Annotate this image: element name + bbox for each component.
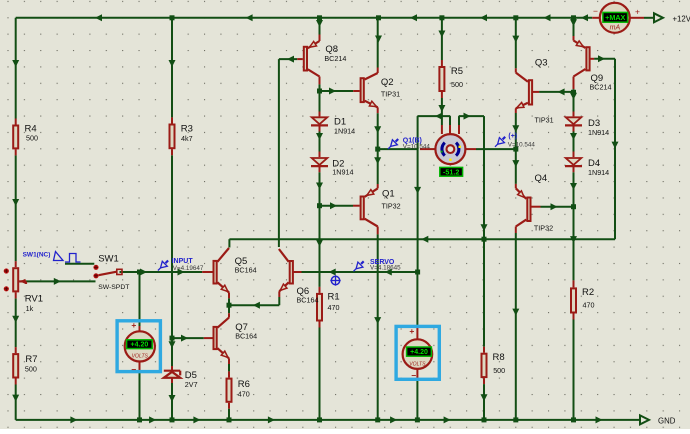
svg-text:500: 500 (493, 366, 505, 375)
svg-text:1k: 1k (26, 304, 34, 313)
svg-text:BC164: BC164 (235, 331, 257, 340)
svg-text:TIP31: TIP31 (381, 90, 400, 99)
svg-text:Q3: Q3 (535, 58, 548, 69)
svg-text:1N914: 1N914 (334, 127, 355, 136)
svg-text:V=4.19647: V=4.19647 (173, 265, 204, 272)
svg-text:V=4.18645: V=4.18645 (370, 264, 401, 271)
svg-text:+4.20: +4.20 (131, 342, 149, 349)
svg-text:BC164: BC164 (297, 295, 319, 304)
svg-text:RV1: RV1 (25, 294, 43, 305)
svg-text:R6: R6 (238, 379, 250, 390)
svg-text:+12V: +12V (673, 15, 690, 24)
svg-text:+: + (635, 6, 640, 16)
svg-text:R7: R7 (25, 354, 37, 365)
svg-text:R5: R5 (451, 66, 463, 77)
svg-text:Q4: Q4 (535, 173, 548, 184)
svg-text:−: − (411, 371, 416, 381)
svg-text:GND: GND (658, 417, 676, 426)
svg-text:VOLTS: VOLTS (409, 361, 426, 367)
svg-text:4k7: 4k7 (181, 134, 193, 143)
svg-text:−: − (131, 365, 136, 375)
svg-text:1N914: 1N914 (588, 128, 609, 137)
svg-text:V=10.544: V=10.544 (508, 141, 536, 148)
svg-text:+MAX: +MAX (605, 13, 625, 22)
svg-text:TIP32: TIP32 (382, 202, 401, 211)
svg-text:mA: mA (610, 25, 621, 32)
svg-text:500: 500 (25, 365, 37, 374)
svg-text:(+): (+) (508, 133, 517, 140)
svg-text:500: 500 (451, 80, 463, 89)
svg-text:V=10.544: V=10.544 (403, 143, 431, 150)
svg-text:TIP32: TIP32 (534, 223, 553, 232)
svg-text:VOLTS: VOLTS (132, 354, 149, 360)
svg-text:-51.2: -51.2 (443, 167, 459, 176)
svg-text:R8: R8 (493, 352, 505, 363)
svg-text:+: + (409, 326, 414, 336)
svg-text:500: 500 (26, 134, 38, 143)
svg-text:+4.20: +4.20 (410, 349, 428, 356)
svg-text:2V7: 2V7 (185, 380, 198, 389)
svg-text:Q1: Q1 (382, 189, 395, 200)
svg-text:R2: R2 (582, 287, 594, 298)
svg-text:Q2: Q2 (381, 77, 394, 88)
svg-text:470: 470 (328, 303, 340, 312)
svg-text:+: + (131, 320, 136, 330)
svg-text:BC164: BC164 (235, 265, 257, 274)
svg-text:TIP31: TIP31 (535, 115, 554, 124)
svg-text:470: 470 (583, 301, 595, 310)
svg-text:470: 470 (238, 390, 250, 399)
svg-text:1N914: 1N914 (588, 168, 609, 177)
svg-text:BC214: BC214 (324, 54, 346, 63)
svg-text:SW1(NC): SW1(NC) (23, 252, 51, 259)
svg-text:BC214: BC214 (590, 83, 612, 92)
svg-text:R1: R1 (328, 292, 340, 303)
svg-text:SW-SPDT: SW-SPDT (98, 284, 129, 291)
svg-text:1N914: 1N914 (332, 168, 353, 177)
svg-text:−: − (593, 6, 598, 16)
svg-text:SW1: SW1 (98, 254, 119, 265)
